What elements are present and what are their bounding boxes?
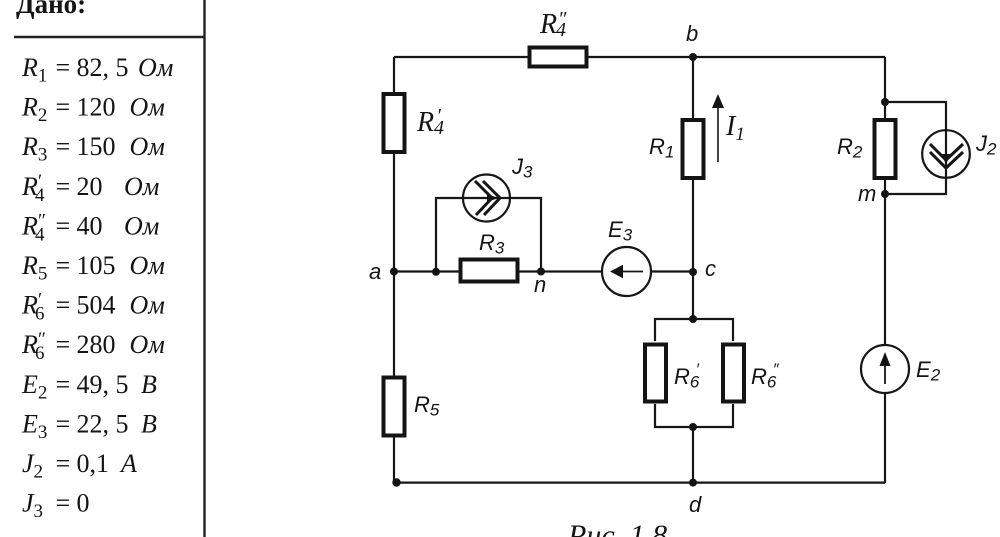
label node d bbox=[689, 492, 702, 517]
label R3 bbox=[479, 230, 505, 258]
label R5 bbox=[414, 392, 440, 420]
svg-text:R′4: R′4 bbox=[416, 105, 444, 139]
svg-text:E3: E3 bbox=[608, 217, 633, 245]
header label Dano bbox=[16, 0, 86, 19]
svg-text:R″4: R″4 bbox=[539, 8, 567, 41]
svg-text:E2: E2 bbox=[916, 357, 941, 385]
value label J2 = 0,1 A bbox=[22, 449, 137, 483]
svg-text:J3=0: J3=0 bbox=[22, 489, 90, 522]
wire J2 bypass loop bbox=[885, 102, 946, 194]
label node n bbox=[534, 272, 546, 297]
value label R6'' = 280 Om bbox=[21, 329, 165, 364]
svg-text:Рис. 1.8: Рис. 1.8 bbox=[567, 519, 667, 537]
wire left rail a bbox=[393, 57, 395, 483]
junction R6 bottom bbox=[689, 423, 697, 431]
value label R6' = 504 Om bbox=[21, 290, 165, 325]
svg-text:Дано:: Дано: bbox=[16, 0, 86, 19]
junction left of R3 bbox=[432, 268, 440, 276]
table vertical rule bbox=[203, 0, 205, 537]
label node b bbox=[686, 21, 698, 46]
junction R2 top bbox=[881, 98, 889, 106]
svg-text:R5=105Ом: R5=105Ом bbox=[21, 251, 165, 285]
svg-text:R5: R5 bbox=[414, 392, 440, 420]
label node c bbox=[705, 256, 716, 281]
resistor R6'' bbox=[723, 345, 744, 402]
junction bottom-left corner bbox=[392, 478, 400, 486]
current arrow I1 bbox=[712, 94, 724, 162]
node n bbox=[537, 268, 545, 276]
svg-text:R3=150Ом: R3=150Ом bbox=[21, 132, 165, 166]
node b bbox=[689, 53, 697, 61]
wire center rail b-c bbox=[692, 57, 694, 319]
label R4' bbox=[416, 105, 444, 139]
value label R4'' = 40 Om bbox=[21, 210, 159, 245]
resistor R4' bbox=[384, 94, 405, 152]
value label E2 = 49,5 V bbox=[21, 370, 157, 404]
resistor R2 bbox=[875, 120, 896, 178]
svg-text:R1=82, 5Ом: R1=82, 5Ом bbox=[21, 53, 173, 87]
svg-text:J2=0,1А: J2=0,1А bbox=[22, 449, 137, 483]
svg-text:R″4=40Ом: R″4=40Ом bbox=[21, 210, 159, 245]
table header rule bbox=[14, 36, 204, 39]
label R6' bbox=[674, 362, 700, 392]
svg-text:R6″: R6″ bbox=[751, 362, 780, 392]
node c bbox=[689, 268, 697, 276]
svg-text:J2: J2 bbox=[975, 131, 997, 159]
svg-text:b: b bbox=[686, 21, 698, 46]
resistor R6' bbox=[645, 345, 666, 402]
label E2 bbox=[916, 357, 941, 385]
svg-text:a: a bbox=[369, 259, 381, 284]
caption Puc 1.8 bbox=[567, 519, 667, 537]
svg-text:c: c bbox=[705, 256, 716, 281]
svg-text:J3: J3 bbox=[511, 154, 533, 182]
label node m bbox=[858, 181, 876, 206]
svg-text:R2=120Ом: R2=120Ом bbox=[21, 93, 165, 127]
wire bottom d-rail bbox=[394, 482, 885, 484]
value label J3 = 0 bbox=[22, 489, 90, 522]
value label R4' = 20 Om bbox=[21, 171, 159, 206]
node m bbox=[881, 190, 889, 198]
label R4'' bbox=[539, 8, 567, 41]
wire top b-rail bbox=[394, 56, 885, 58]
node a bbox=[390, 268, 398, 276]
resistor R5 bbox=[384, 378, 405, 436]
svg-text:R″6=280Ом: R″6=280Ом bbox=[21, 329, 165, 364]
svg-text:R6′: R6′ bbox=[674, 362, 700, 392]
label J3 bbox=[511, 154, 533, 182]
label R2 bbox=[837, 134, 863, 162]
junction R6 top bbox=[689, 315, 697, 323]
svg-text:R1: R1 bbox=[649, 134, 674, 162]
svg-text:R′6=504Ом: R′6=504Ом bbox=[21, 290, 165, 325]
wire R6 parallel loop bbox=[655, 319, 733, 427]
current source J2 bbox=[922, 130, 970, 178]
resistor R1 bbox=[683, 120, 704, 178]
resistor R3 bbox=[461, 260, 518, 282]
value label R1 = 82,5 Om bbox=[21, 53, 173, 87]
svg-text:I1: I1 bbox=[725, 111, 745, 145]
wire J3 bypass loop bbox=[436, 198, 541, 272]
svg-text:R′4=20Ом: R′4=20Ом bbox=[21, 171, 159, 206]
source E2 bbox=[861, 345, 909, 393]
value label R5 = 105 Om bbox=[21, 251, 165, 285]
svg-text:E2=49, 5В: E2=49, 5В bbox=[21, 370, 157, 404]
svg-text:d: d bbox=[689, 492, 702, 517]
resistor R4'' bbox=[530, 48, 587, 67]
current source J3 bbox=[463, 175, 510, 222]
label I1 bbox=[725, 111, 745, 145]
svg-text:n: n bbox=[534, 272, 546, 297]
label J2 bbox=[975, 131, 997, 159]
label E3 bbox=[608, 217, 633, 245]
value label R2 = 120 Om bbox=[21, 93, 165, 127]
value label E3 = 22,5 V bbox=[21, 409, 157, 443]
svg-text:E3=22, 5В: E3=22, 5В bbox=[21, 409, 157, 443]
wire center rail to d bbox=[692, 427, 694, 483]
svg-text:R3: R3 bbox=[479, 230, 505, 258]
svg-text:m: m bbox=[858, 181, 876, 206]
label node a bbox=[369, 259, 381, 284]
wire middle a-c bbox=[394, 270, 693, 272]
value label R3 = 150 Om bbox=[21, 132, 165, 166]
svg-text:R2: R2 bbox=[837, 134, 863, 162]
wire right rail bbox=[884, 57, 886, 483]
node d bbox=[689, 479, 697, 487]
source E3 bbox=[602, 247, 651, 296]
label R1 bbox=[649, 134, 674, 162]
label R6'' bbox=[751, 362, 780, 392]
